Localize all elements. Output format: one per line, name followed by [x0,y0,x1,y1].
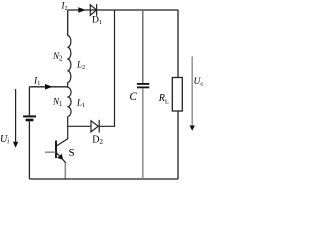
base lead [45,151,56,153]
svg-text:I1: I1 [33,77,40,88]
load branch bottom lead [177,111,179,179]
wire node to D2 [68,125,91,127]
top rail wire [68,9,178,11]
wire I1 feed from battery [29,86,67,88]
inductor L2 winding [67,36,71,83]
emitter lead with arrow [56,153,65,179]
svg-text:N2: N2 [52,51,63,62]
wire between windings [67,83,69,88]
capacitor top lead [142,10,144,83]
bottom rail wire [29,178,178,180]
voltage arrow Ui [15,89,17,143]
capacitor bottom lead [142,88,144,179]
inductor L1 winding [67,87,71,116]
load branch top lead [177,10,179,78]
current arrow I2 [78,7,86,13]
svg-text:L2: L2 [76,60,85,71]
svg-text:L1: L1 [76,98,85,109]
wire left branch top vertical [67,10,69,36]
voltage arrow Uo [191,56,193,126]
battery lead upper [28,87,30,116]
capacitor C plates [137,83,149,85]
diode D2 [91,120,99,133]
diode D1 [90,4,96,16]
svg-text:S: S [69,147,75,159]
svg-text:RL: RL [158,93,169,106]
current arrow I1 [45,84,53,90]
wire winding bottom to node [67,117,69,127]
svg-text:D2: D2 [92,134,103,146]
svg-text:N1: N1 [52,97,62,108]
battery E long plate [23,115,36,117]
svg-text:Uo: Uo [194,77,204,88]
wire D2 cathode to top rail [99,10,114,126]
battery lead lower [28,121,30,179]
transistor S bar [55,141,57,159]
svg-text:C: C [129,91,137,103]
svg-text:D1: D1 [92,15,102,26]
svg-text:Ui: Ui [0,134,9,145]
emitter lower gray segment [64,163,66,179]
svg-text:I2: I2 [61,1,68,12]
resistor RL body [172,78,182,112]
battery E short plate [26,119,34,122]
collector lead [56,126,67,146]
